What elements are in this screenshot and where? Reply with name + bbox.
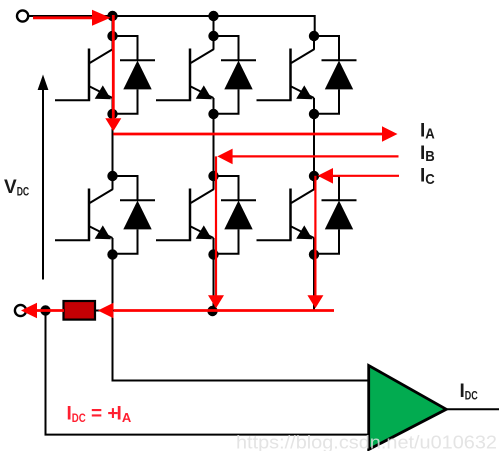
transistor: lower IGBT leg B	[156, 176, 214, 254]
diode: upper freewheel diode leg A	[113, 36, 156, 114]
wire: red current path down leg B	[208, 156, 224, 308]
node: leg B upper collector	[208, 31, 218, 41]
node: leg B lower collector	[208, 171, 218, 181]
svg-text:https://blog.csdn.net/u010632: https://blog.csdn.net/u010632	[236, 433, 497, 451]
wire: red current path down leg A	[105, 15, 121, 131]
node: leg C lower collector	[309, 171, 319, 181]
node: top bus / leg B	[208, 11, 218, 21]
op-amp: DC current sense amplifier	[369, 366, 447, 450]
wire: top DC+ bus	[29, 16, 315, 36]
node: bottom bus / sense tap	[40, 305, 50, 315]
wire: leg B lower emitter to bottom bus	[213, 255, 215, 311]
wire: leg B phase vertical	[213, 114, 215, 176]
diode: lower freewheel diode leg A	[113, 176, 156, 254]
wire: amplifier output	[446, 408, 499, 410]
wire: leg A vertical (bus to collector)	[112, 16, 114, 36]
terminal: DC- return	[15, 305, 26, 316]
wire: red current arrow into DC+ terminal	[33, 10, 111, 26]
transistor: upper IGBT leg C	[257, 36, 315, 114]
transistor: lower IGBT leg C	[257, 176, 315, 254]
transistor: lower IGBT leg A	[55, 176, 113, 254]
node: leg B upper emitter	[208, 109, 218, 119]
wire: red IA output line	[113, 126, 397, 141]
VDC reference arrow	[38, 75, 49, 280]
node: leg A lower emitter	[107, 249, 117, 259]
diode: lower freewheel diode leg B	[214, 176, 257, 254]
node: leg C upper collector	[309, 31, 319, 41]
wire: red bottom bus current path into shunt	[98, 303, 334, 319]
wire: red IC return line	[318, 168, 399, 184]
node: leg C upper emitter	[309, 109, 319, 119]
resistor: DC-link shunt	[64, 301, 96, 320]
transistor: upper IGBT leg B	[156, 36, 214, 114]
wire: red IB return line	[217, 149, 398, 165]
node: leg B lower emitter	[208, 249, 218, 259]
wire: leg B vertical (bus to collector)	[213, 16, 215, 36]
node: leg C lower emitter	[309, 249, 319, 259]
wire: leg C lower emitter to bottom bus	[313, 255, 315, 311]
node: leg A lower collector	[107, 171, 117, 181]
wire: leg A lower emitter to bottom bus	[112, 255, 114, 311]
wire: leg C phase vertical	[313, 114, 315, 176]
node: bottom bus / leg B	[207, 306, 217, 316]
wire: bottom DC- bus	[27, 310, 334, 312]
wire: red current out of shunt to DC- terminal	[21, 303, 64, 319]
wire: leg A below bus to amplifier input	[113, 311, 369, 381]
terminal: DC+ input	[17, 10, 28, 21]
diode: upper freewheel diode leg B	[214, 36, 257, 114]
transistor: upper IGBT leg A	[55, 36, 113, 114]
node: leg A upper emitter	[107, 109, 117, 119]
diode: lower freewheel diode leg C	[314, 176, 357, 254]
wire: sense tap down from bus node	[46, 311, 369, 435]
wire: red current path down leg C	[307, 176, 323, 308]
wire: terminal stub top	[29, 15, 36, 17]
node: leg A upper collector	[107, 31, 117, 41]
wire: leg A phase vertical	[112, 114, 114, 176]
diode: upper freewheel diode leg C	[314, 36, 357, 114]
node: top bus / leg A	[107, 11, 117, 21]
